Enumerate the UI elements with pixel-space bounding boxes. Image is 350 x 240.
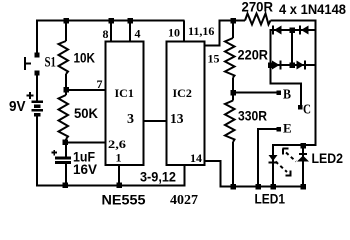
svg-text:16V: 16V xyxy=(73,161,98,177)
svg-text:4 x 1N4148: 4 x 1N4148 xyxy=(279,1,346,17)
svg-text:LED2: LED2 xyxy=(312,150,344,166)
svg-text:B: B xyxy=(283,88,291,103)
svg-text:IC2: IC2 xyxy=(173,86,192,100)
svg-text:IC1: IC1 xyxy=(115,86,134,100)
svg-text:330R: 330R xyxy=(238,108,267,124)
svg-text:3: 3 xyxy=(127,112,134,127)
svg-text:9V: 9V xyxy=(9,98,26,115)
svg-text:15: 15 xyxy=(208,52,220,66)
svg-text:10: 10 xyxy=(168,26,180,40)
svg-text:3-9,12: 3-9,12 xyxy=(140,169,176,185)
svg-text:LED1: LED1 xyxy=(255,191,286,207)
svg-text:14: 14 xyxy=(190,151,202,165)
svg-text:NE555: NE555 xyxy=(102,192,146,208)
svg-text:4: 4 xyxy=(135,27,141,41)
svg-text:S1: S1 xyxy=(45,55,57,71)
svg-text:C: C xyxy=(303,103,311,118)
svg-text:13: 13 xyxy=(170,112,184,127)
svg-text:270R: 270R xyxy=(242,0,274,15)
svg-text:2,6: 2,6 xyxy=(108,137,126,151)
svg-text:11,16: 11,16 xyxy=(188,24,214,38)
svg-text:7: 7 xyxy=(97,77,103,91)
svg-text:8: 8 xyxy=(103,27,109,41)
svg-text:E: E xyxy=(283,121,292,136)
svg-text:1: 1 xyxy=(116,151,122,165)
svg-text:10K: 10K xyxy=(74,50,96,66)
svg-text:50K: 50K xyxy=(74,105,98,121)
svg-text:220R: 220R xyxy=(238,47,269,63)
svg-text:4027: 4027 xyxy=(170,193,198,208)
